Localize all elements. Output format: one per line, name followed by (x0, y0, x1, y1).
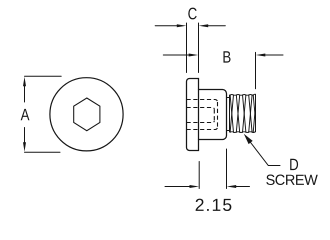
shank neck top line (227, 97, 230, 99)
hidden hex socket lines (dashed) (187, 100, 218, 130)
dim C left arrowhead (177, 24, 187, 27)
thread crest bottom outline (scalloped) (230, 131, 256, 134)
dim B right arrowhead (256, 54, 265, 57)
dim 2.15 right arrow line (236, 186, 250, 188)
svg-text:A: A (21, 106, 30, 125)
dim 2.15 right extension line (226, 149, 228, 189)
socket hidden line row 1 (187, 100, 218, 103)
leader arrowhead (244, 134, 253, 144)
dim C right arrow line (208, 25, 226, 27)
dim C left extension line (186, 23, 188, 73)
dim C right arrowhead (199, 24, 209, 27)
dim A upper arrowhead (23, 77, 26, 87)
head body (side view) (199, 90, 227, 140)
dim C left arrow line (155, 25, 177, 27)
dim 2.15 right arrowhead (227, 185, 237, 188)
svg-text:2.15: 2.15 (195, 195, 233, 215)
thread flank lines (230, 95, 255, 133)
socket hidden line row 3 (187, 121, 215, 123)
dim B left arrowhead (189, 54, 199, 57)
thread end face (255, 95, 257, 132)
shank neck bottom line (227, 130, 230, 132)
dim B right arrow line (265, 54, 283, 56)
end view circle (screw head outline) (50, 78, 123, 151)
dim A lower arrowhead (23, 142, 26, 152)
svg-text:B: B (222, 48, 231, 67)
socket bottom hidden line (217, 102, 219, 127)
dim 2.15 left extension line (198, 162, 200, 189)
hex socket (end view hexagon) (74, 98, 100, 131)
dim C right extension line (198, 23, 200, 73)
dim A dimension line lower segment (24, 128, 26, 144)
dim B left arrow line (163, 54, 189, 56)
dim A dimension line upper segment (24, 85, 26, 102)
socket hidden line row 4 (187, 127, 218, 130)
flange of screw head (side view) (187, 79, 199, 151)
svg-text:C: C (188, 5, 198, 24)
socket hidden line row 2 (187, 108, 215, 110)
thread start edge (229, 95, 231, 132)
dim B right extension line (255, 52, 257, 88)
thread crest top outline (scalloped) (230, 93, 256, 96)
leader line for D (250, 142, 280, 166)
dim A bottom extension line (25, 151, 61, 153)
dim 2.15 left arrow line (165, 186, 189, 188)
pilot bottom hidden line (213, 109, 215, 120)
dim 2.15 left arrowhead (190, 185, 200, 188)
svg-text:SCREW: SCREW (266, 173, 318, 189)
dim A top extension line (25, 75, 62, 77)
